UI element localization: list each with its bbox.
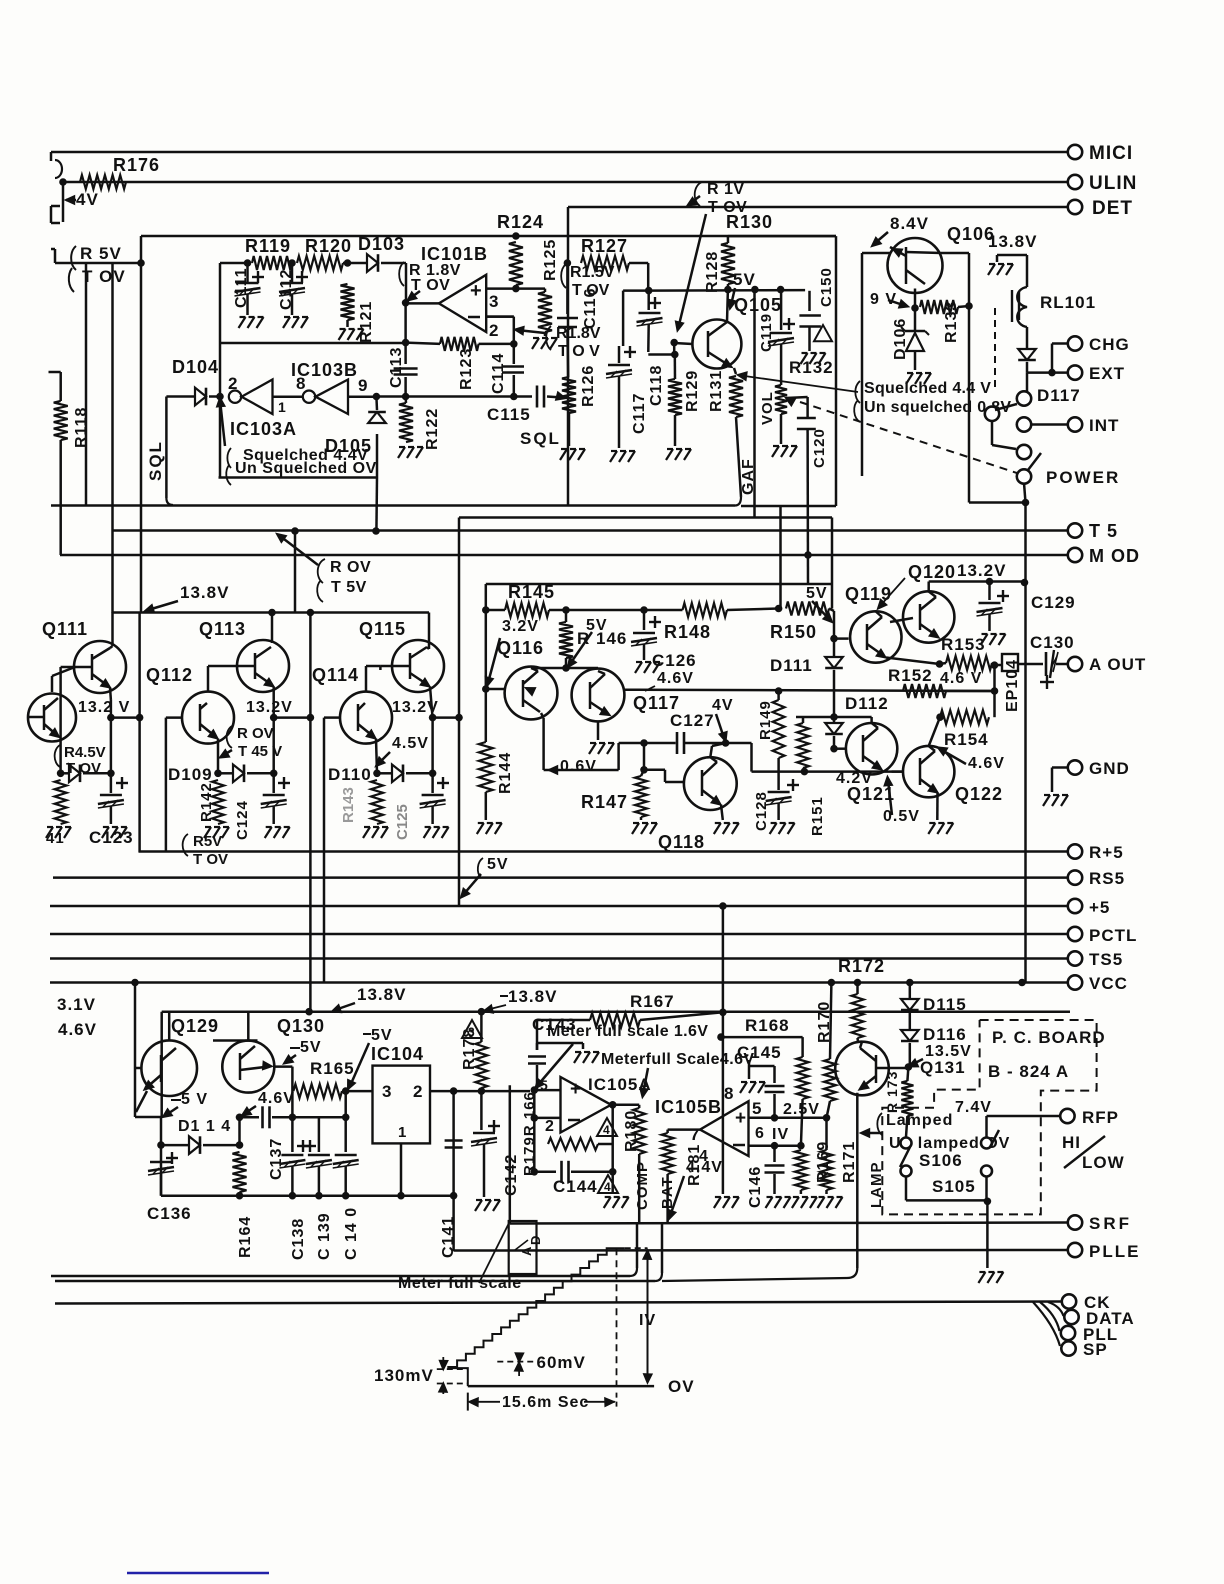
svg-text:RL101: RL101	[1040, 293, 1096, 312]
svg-text:130mV: 130mV	[374, 1366, 434, 1385]
svg-text:C137: C137	[268, 1138, 285, 1180]
svg-text:4.2V: 4.2V	[836, 770, 873, 787]
svg-text:7: 7	[690, 1125, 700, 1144]
transistor Q106	[888, 238, 943, 293]
wire SQL vertical left	[165, 397, 168, 499]
svg-text:Q117: Q117	[633, 693, 680, 713]
svg-text:4.6V: 4.6V	[258, 1090, 295, 1107]
svg-text:PCTL: PCTL	[1089, 926, 1137, 945]
warning triangle 4	[597, 1118, 617, 1136]
wire 13.8V rail	[113, 611, 430, 614]
svg-text:D: D	[528, 1235, 543, 1245]
transistor Q117	[572, 669, 625, 722]
resistor R145	[482, 606, 490, 614]
terminal DATA	[1048, 1302, 1064, 1316]
wire pin3 node	[512, 285, 520, 293]
wire 5V node row	[724, 286, 732, 294]
svg-text:2: 2	[413, 1082, 423, 1101]
svg-text:8: 8	[724, 1084, 734, 1103]
svg-text:13.2V: 13.2V	[392, 699, 439, 716]
svg-text:R119: R119	[245, 236, 291, 256]
svg-text:D116: D116	[923, 1025, 967, 1044]
svg-text:C138: C138	[290, 1218, 307, 1260]
svg-text:R122: R122	[424, 408, 441, 450]
wire R150 node down	[833, 611, 836, 639]
wire IC103B out	[373, 393, 381, 401]
wire 0V level	[468, 1385, 654, 1388]
svg-text:R168: R168	[745, 1016, 790, 1035]
wire VCC bus	[50, 981, 1068, 984]
capacitor C118	[647, 291, 650, 310]
diode D112	[830, 713, 838, 721]
svg-text:C123: C123	[89, 828, 134, 847]
resistor R181	[668, 1128, 700, 1131]
transistor Q114	[340, 692, 392, 744]
dashed vertical staircase	[616, 1248, 618, 1386]
svg-text:M OD: M OD	[1089, 546, 1140, 566]
wire box left edge	[567, 207, 570, 506]
resistor R178	[475, 1042, 487, 1088]
svg-text:R167: R167	[630, 992, 675, 1011]
terminal AOUT	[1068, 657, 1082, 671]
wire squelch box top rail y236	[141, 235, 836, 238]
svg-text:Un Squelched OV: Un Squelched OV	[235, 460, 377, 477]
svg-text:+: +	[735, 1108, 746, 1129]
wire CK bus	[55, 1302, 1061, 1304]
svg-text:R152: R152	[888, 666, 933, 685]
svg-text:15.6m Sec: 15.6m Sec	[502, 1394, 589, 1411]
svg-text:C115: C115	[487, 405, 531, 424]
svg-text:C146: C146	[747, 1166, 764, 1208]
svg-text:4: 4	[603, 1123, 610, 1137]
svg-text:13.8V: 13.8V	[988, 232, 1037, 251]
svg-text:S106: S106	[919, 1151, 963, 1170]
svg-text:S105: S105	[932, 1177, 976, 1196]
terminal PLL	[1040, 1302, 1060, 1331]
svg-text:4.6V: 4.6V	[968, 755, 1005, 772]
arrow 1V	[647, 1254, 649, 1380]
blue underline mark	[127, 1572, 269, 1575]
wire R165 node down	[344, 1091, 347, 1117]
wire box top y584	[486, 583, 832, 586]
svg-text:3: 3	[468, 1025, 475, 1039]
resistor R133	[920, 300, 958, 314]
svg-text:R127: R127	[581, 236, 628, 256]
resistor R169	[795, 1150, 807, 1190]
svg-text:T 45 V: T 45 V	[238, 743, 282, 760]
svg-text:R164: R164	[237, 1216, 254, 1258]
svg-text:C142: C142	[503, 1154, 520, 1196]
svg-text:P. C. BOARD: P. C. BOARD	[992, 1028, 1106, 1047]
svg-text:+5: +5	[1089, 898, 1110, 917]
wire bottom rail	[161, 1194, 454, 1197]
svg-text:R4.5V: R4.5V	[64, 744, 106, 761]
svg-text:C150: C150	[818, 267, 835, 307]
svg-text:R124: R124	[497, 212, 544, 232]
diode D106 zener	[914, 308, 917, 331]
wire IC105A out	[611, 1104, 613, 1107]
resistor R168	[723, 1036, 803, 1039]
svg-text:Q131: Q131	[920, 1058, 966, 1077]
wire ULIN bus	[63, 181, 1068, 184]
svg-text:1: 1	[398, 1124, 407, 1141]
pot VOL R132	[775, 385, 787, 414]
wire +5 bus	[50, 905, 1068, 908]
svg-text:Lamped: Lamped	[886, 1112, 953, 1129]
svg-text:R 5V: R 5V	[80, 244, 122, 263]
svg-text:Q118: Q118	[658, 832, 705, 852]
wire PLLE bus	[454, 1249, 1068, 1252]
svg-text:Q116: Q116	[497, 638, 544, 658]
svg-text:D1 1 4: D1 1 4	[178, 1118, 231, 1135]
capacitor C137	[240, 1116, 260, 1119]
svg-text:5: 5	[752, 1099, 762, 1118]
resistor R167	[590, 1013, 640, 1027]
svg-text:R130: R130	[726, 212, 773, 232]
svg-text:COMP: COMP	[634, 1161, 651, 1210]
capacitor C114	[513, 344, 516, 364]
svg-text:2: 2	[545, 1118, 555, 1135]
capacitor C116	[566, 263, 569, 314]
svg-text:R165: R165	[310, 1059, 355, 1078]
switch POWER	[1017, 469, 1031, 483]
capacitor C144	[534, 1171, 556, 1174]
wire T5 bus	[113, 529, 1069, 532]
capacitor C123	[107, 770, 115, 778]
transistor Q121	[846, 723, 897, 774]
svg-text:C116: C116	[582, 288, 599, 329]
resistor R125	[538, 292, 552, 332]
resistor R127	[564, 259, 572, 267]
svg-text:R148: R148	[664, 622, 711, 642]
capacitor C126	[643, 610, 646, 630]
svg-text:3.2V: 3.2V	[502, 618, 539, 635]
capacitor C119	[780, 290, 783, 330]
node Q105 base	[670, 339, 678, 347]
wire Q130 emitter	[274, 1065, 292, 1068]
svg-text:7.4V: 7.4V	[955, 1099, 992, 1116]
wire pin8 column	[719, 902, 727, 910]
resistor R121	[344, 259, 352, 267]
svg-text:IC105B: IC105B	[655, 1097, 722, 1117]
wire 7.4V to RFP	[985, 1116, 988, 1137]
svg-text:C111: C111	[233, 268, 250, 308]
svg-text:13.8V: 13.8V	[357, 985, 406, 1004]
dashed PC board outline	[882, 1020, 1096, 1214]
svg-text:HI: HI	[1062, 1133, 1081, 1152]
node C127 line	[640, 739, 648, 747]
wire power to VCC	[1024, 483, 1026, 503]
svg-text:C128: C128	[753, 791, 770, 831]
transistor Q120	[903, 591, 954, 642]
svg-text:D112: D112	[845, 694, 889, 713]
svg-text:IC104: IC104	[371, 1044, 424, 1064]
terminal EXT	[1027, 371, 1068, 374]
wire v534	[533, 1090, 536, 1172]
resistor R180	[633, 1108, 645, 1154]
wire v324 Q114 base	[323, 852, 326, 982]
svg-text:C129: C129	[1031, 593, 1076, 612]
wire 13.8V rail lower	[162, 1010, 1070, 1013]
svg-text:LOW: LOW	[1082, 1153, 1125, 1172]
capacitor C125	[431, 718, 434, 774]
resistor R147	[635, 776, 647, 817]
svg-text:C 139: C 139	[316, 1212, 333, 1260]
capacitor C136	[166, 1157, 178, 1159]
svg-text:R180: R180	[623, 1110, 640, 1152]
svg-text:41: 41	[46, 830, 65, 847]
svg-text:3.1V: 3.1V	[57, 995, 96, 1014]
wire D112 line	[834, 716, 872, 719]
svg-text:D117: D117	[1037, 386, 1081, 405]
wire pin5 line	[771, 1114, 779, 1122]
svg-text:Q115: Q115	[359, 619, 406, 639]
transistor Q130	[222, 1041, 274, 1093]
wire 4.6V output line	[624, 690, 994, 691]
diode D110	[373, 770, 381, 778]
wire pin6 line	[771, 1142, 779, 1150]
svg-text:T OV: T OV	[82, 267, 126, 286]
svg-text:D115: D115	[923, 995, 967, 1014]
svg-text:R120: R120	[305, 236, 352, 256]
IC104 box	[373, 1066, 431, 1144]
diode D111	[833, 639, 836, 657]
svg-text:Q113: Q113	[199, 619, 246, 639]
wire switch commons	[905, 1176, 908, 1200]
svg-text:4.6 V: 4.6 V	[940, 670, 982, 687]
svg-text:1: 1	[278, 399, 287, 415]
wire R145 to C126	[566, 609, 644, 612]
svg-text:R131: R131	[708, 370, 725, 412]
svg-text:R OV: R OV	[330, 559, 371, 576]
terminal MOD	[1068, 548, 1082, 562]
svg-text:RFP: RFP	[1082, 1108, 1119, 1127]
svg-text:5 V: 5 V	[181, 1091, 208, 1108]
wire v459	[458, 518, 461, 907]
capacitor C138	[291, 1117, 294, 1152]
svg-text:R142: R142	[198, 782, 215, 822]
svg-text:MICI: MICI	[1089, 143, 1133, 164]
svg-text:RS5: RS5	[1089, 869, 1125, 888]
wire vertical x86	[85, 263, 88, 505]
wire bus y505	[51, 504, 735, 507]
svg-text:R154: R154	[944, 730, 989, 749]
resistor R172	[852, 994, 864, 1038]
svg-text:5V: 5V	[806, 585, 828, 602]
svg-text:13.8V: 13.8V	[180, 583, 229, 602]
svg-text:13.2V: 13.2V	[246, 699, 293, 716]
svg-text:EP104: EP104	[1004, 659, 1021, 712]
wire box left edge	[509, 1085, 512, 1223]
wire MICI bus	[51, 151, 1068, 154]
svg-text:D111: D111	[770, 656, 813, 675]
transistor Q111	[74, 641, 126, 693]
wire v295	[294, 531, 297, 613]
wire base node up	[236, 1114, 244, 1122]
terminal ULIN	[1068, 175, 1082, 189]
svg-text:IC103B: IC103B	[291, 360, 358, 380]
switch to INT	[1026, 373, 1029, 391]
capacitor C115	[514, 395, 532, 398]
switch S105	[981, 1138, 992, 1149]
svg-text:5V: 5V	[300, 1039, 322, 1056]
svg-text:IV: IV	[639, 1312, 656, 1329]
svg-text:Q112: Q112	[146, 665, 193, 685]
svg-text:13.2 V: 13.2 V	[78, 699, 130, 716]
svg-text:C125: C125	[394, 804, 411, 840]
staircase waveform	[448, 1248, 624, 1386]
svg-text:T OV: T OV	[66, 760, 101, 777]
svg-text:C114: C114	[490, 353, 507, 394]
svg-text:3: 3	[382, 1082, 392, 1101]
svg-text:C136: C136	[147, 1204, 192, 1223]
diode D117	[1018, 349, 1036, 360]
resistor R142	[212, 780, 224, 824]
transistor Q115	[392, 640, 444, 692]
svg-text:EXT: EXT	[1089, 364, 1125, 383]
svg-text:VCC: VCC	[1089, 974, 1128, 993]
svg-text:C126: C126	[652, 651, 697, 670]
wire Q119-Q120 link	[890, 618, 913, 622]
svg-text:C118: C118	[648, 365, 665, 406]
svg-text:R118: R118	[73, 407, 90, 448]
svg-text:IC105A: IC105A	[588, 1075, 652, 1094]
svg-text:5V: 5V	[371, 1027, 393, 1044]
svg-text:60mV: 60mV	[537, 1353, 586, 1372]
resistor R131	[734, 368, 736, 374]
switch S106	[901, 1138, 912, 1149]
wire Q106 left	[861, 253, 864, 476]
svg-text:D104: D104	[172, 357, 219, 377]
svg-text:ULIN: ULIN	[1089, 173, 1137, 194]
transistor Q113	[237, 640, 289, 692]
resistor R146	[559, 622, 573, 658]
transistor Q122	[903, 746, 954, 797]
capacitor C128	[768, 791, 790, 794]
op-amp IC105A	[561, 1077, 612, 1133]
svg-text:Q120: Q120	[908, 562, 956, 582]
wire RS5 bus	[53, 876, 1068, 879]
svg-text:13.2V: 13.2V	[957, 561, 1006, 580]
label 60mV	[497, 1361, 533, 1363]
transistor Q105	[692, 320, 741, 369]
wire R152 to EP	[991, 687, 999, 695]
svg-text:R176: R176	[113, 155, 160, 175]
wire v310 down	[309, 613, 312, 1012]
svg-text:Q111: Q111	[42, 619, 88, 639]
svg-text:SP: SP	[1083, 1340, 1108, 1359]
wire v135	[134, 984, 137, 1118]
svg-text:C124: C124	[234, 800, 251, 840]
svg-text:OV: OV	[668, 1377, 695, 1396]
svg-text:R129: R129	[684, 370, 701, 412]
svg-text:Meter full scale 1.6V: Meter full scale 1.6V	[547, 1023, 708, 1040]
svg-text:D106: D106	[892, 318, 909, 360]
svg-text:3: 3	[489, 292, 499, 311]
resistor R164	[233, 1152, 247, 1192]
svg-text:SQL: SQL	[520, 429, 561, 448]
svg-text:13.8V: 13.8V	[508, 987, 557, 1006]
capacitor C139	[318, 1117, 321, 1152]
svg-text:5: 5	[540, 1077, 549, 1093]
svg-text:Squelched 4.4 V: Squelched 4.4 V	[864, 380, 991, 397]
terminal CK	[1062, 1294, 1076, 1308]
svg-text:R172: R172	[838, 956, 885, 976]
diode D103	[367, 254, 378, 272]
label 15.6m Sec	[467, 1393, 469, 1411]
wire v780 lower	[779, 506, 782, 609]
svg-text:A OUT: A OUT	[1089, 655, 1146, 674]
capacitor C129	[988, 582, 991, 601]
svg-text:C113: C113	[388, 347, 405, 388]
wire Q118 collector	[710, 746, 712, 757]
svg-text:INT: INT	[1089, 416, 1119, 435]
wire TS5 bus	[50, 957, 1068, 960]
resistor R126	[562, 377, 576, 413]
svg-text:9 V: 9 V	[870, 291, 897, 308]
capacitor C141	[452, 1091, 455, 1196]
capacitor C140	[344, 1117, 347, 1152]
svg-text:R 173: R 173	[884, 1071, 900, 1113]
resistor R141	[55, 780, 67, 824]
wire Q106 right collector	[941, 252, 969, 255]
wire v376 from D105	[375, 478, 378, 533]
wire R+5 bus	[139, 850, 1068, 853]
transistor Q131	[835, 1042, 889, 1096]
wire MOD bus	[60, 554, 1068, 557]
svg-text:C130: C130	[1030, 633, 1075, 652]
wire Q105 box right	[835, 236, 838, 506]
relay RL101	[997, 254, 1027, 257]
wire Q105 box top	[728, 235, 836, 238]
svg-text:R125: R125	[542, 239, 559, 281]
svg-text:+: +	[570, 1079, 581, 1100]
transistor Q112	[182, 692, 234, 744]
svg-text:Q114: Q114	[312, 665, 359, 685]
diode D114	[157, 1141, 165, 1149]
terminal T5	[1068, 523, 1082, 537]
resistor R143 faded	[371, 780, 383, 824]
wire R127 node down	[647, 263, 650, 291]
terminal MICI	[1068, 145, 1082, 159]
wire PCTL bus	[50, 933, 1068, 936]
svg-text:R5V: R5V	[193, 833, 222, 850]
component EP104	[991, 661, 999, 669]
resistor R124	[512, 232, 520, 240]
svg-text:CHG: CHG	[1089, 335, 1130, 354]
transistor Q116	[505, 667, 558, 720]
wire vertical x112	[111, 263, 114, 613]
svg-text:D110: D110	[328, 765, 372, 784]
wire box bottom D105	[219, 476, 378, 479]
capacitor C117	[623, 289, 649, 292]
svg-text:R132: R132	[789, 358, 834, 377]
wire IC104 pin1 down	[400, 1143, 403, 1195]
svg-text:T 5V: T 5V	[331, 579, 367, 596]
svg-text:Q105: Q105	[734, 295, 782, 315]
svg-text:C117: C117	[631, 393, 648, 434]
capacitor C130	[1018, 663, 1043, 666]
svg-text:T OV: T OV	[193, 851, 228, 868]
ground near C143	[536, 1043, 539, 1050]
wire SQL feedback line	[376, 395, 513, 398]
resistor R150	[775, 605, 783, 613]
resistor R170	[824, 1059, 836, 1101]
capacitor C145	[749, 1065, 775, 1068]
capacitor C111	[244, 259, 252, 267]
svg-text:R171: R171	[841, 1141, 858, 1183]
svg-text:2.5V: 2.5V	[783, 1101, 820, 1118]
